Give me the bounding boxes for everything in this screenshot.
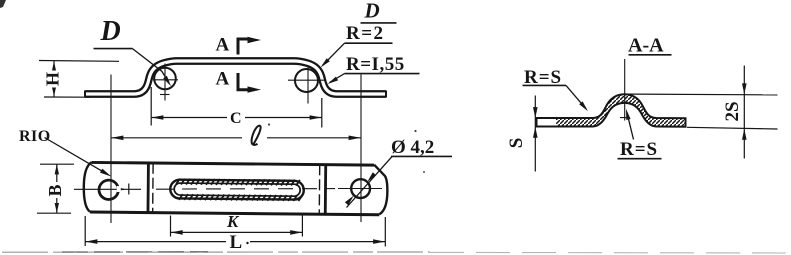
right circle centerlines — [307, 66, 309, 104]
dimension H (hat height) — [39, 60, 119, 63]
dimension S (sheet thickness) — [534, 96, 536, 172]
left hole — [99, 180, 118, 199]
dimension l (script ell) between hole centers — [111, 137, 242, 139]
svg-text:K: K — [226, 212, 240, 231]
svg-text:RIO: RIO — [19, 128, 51, 145]
plate horizontal centerline — [74, 188, 141, 190]
left circle centerlines — [164, 64, 166, 101]
svg-text:L: L — [230, 232, 243, 253]
scan noise: top-left corner blob — [0, 0, 6, 8]
scan noise: specks — [268, 123, 270, 125]
right bend line (dashed) — [318, 164, 320, 213]
right pipe circle (dia D) in side view — [295, 69, 318, 92]
dimension C between bend centers — [150, 87, 152, 126]
small arrow and tick on centerline right of left hole — [117, 187, 126, 191]
right bend line (solid) — [324, 164, 327, 213]
svg-text:D: D — [100, 16, 121, 47]
dimension K — [170, 216, 172, 237]
dimension B — [40, 163, 74, 165]
long centerline through left hole (both views) — [110, 75, 112, 224]
left pipe circle (dia D) in side view — [154, 68, 176, 90]
embossed rib outer outline — [170, 180, 304, 200]
plate right end with chamfer — [374, 165, 388, 215]
svg-text:2S: 2S — [722, 101, 743, 121]
svg-text:Ø 4,2: Ø 4,2 — [391, 137, 434, 158]
left bend line (dashed) — [152, 163, 154, 212]
svg-text:R=2: R=2 — [346, 23, 385, 44]
dimension 2S — [743, 66, 745, 159]
svg-text:A: A — [216, 69, 230, 90]
dimension L — [84, 216, 86, 246]
rib hatch ticks — [176, 179, 180, 185]
left bend line (solid) — [147, 163, 150, 212]
plate outline bottom edge — [90, 212, 379, 215]
scan noise: bottom streak — [2, 251, 430, 253]
extension line at strip bottom — [687, 127, 778, 129]
plate outline top edge — [92, 162, 374, 165]
svg-text:D: D — [364, 0, 380, 23]
left foot end face — [84, 91, 86, 98]
svg-text:C: C — [230, 110, 242, 127]
side view sheet profile (hat-shaped strip) — [85, 61, 386, 94]
svg-text:A: A — [216, 35, 230, 56]
right hole — [351, 179, 370, 198]
long centerline through right hole (both views) — [360, 75, 362, 223]
script ell glyph — [252, 126, 261, 145]
svg-text:B: B — [45, 184, 65, 196]
svg-text:R=S: R=S — [620, 139, 658, 160]
dome centerline — [624, 59, 626, 121]
svg-text:S: S — [506, 138, 527, 149]
embossed rib inner outline — [174, 183, 300, 196]
svg-text:R=I,55: R=I,55 — [346, 54, 405, 75]
svg-text:A-A: A-A — [628, 35, 664, 57]
svg-text:H: H — [43, 72, 63, 86]
plate left end arc R10 — [84, 162, 92, 212]
extension line at dome top — [628, 93, 778, 96]
right foot end face — [385, 91, 387, 98]
